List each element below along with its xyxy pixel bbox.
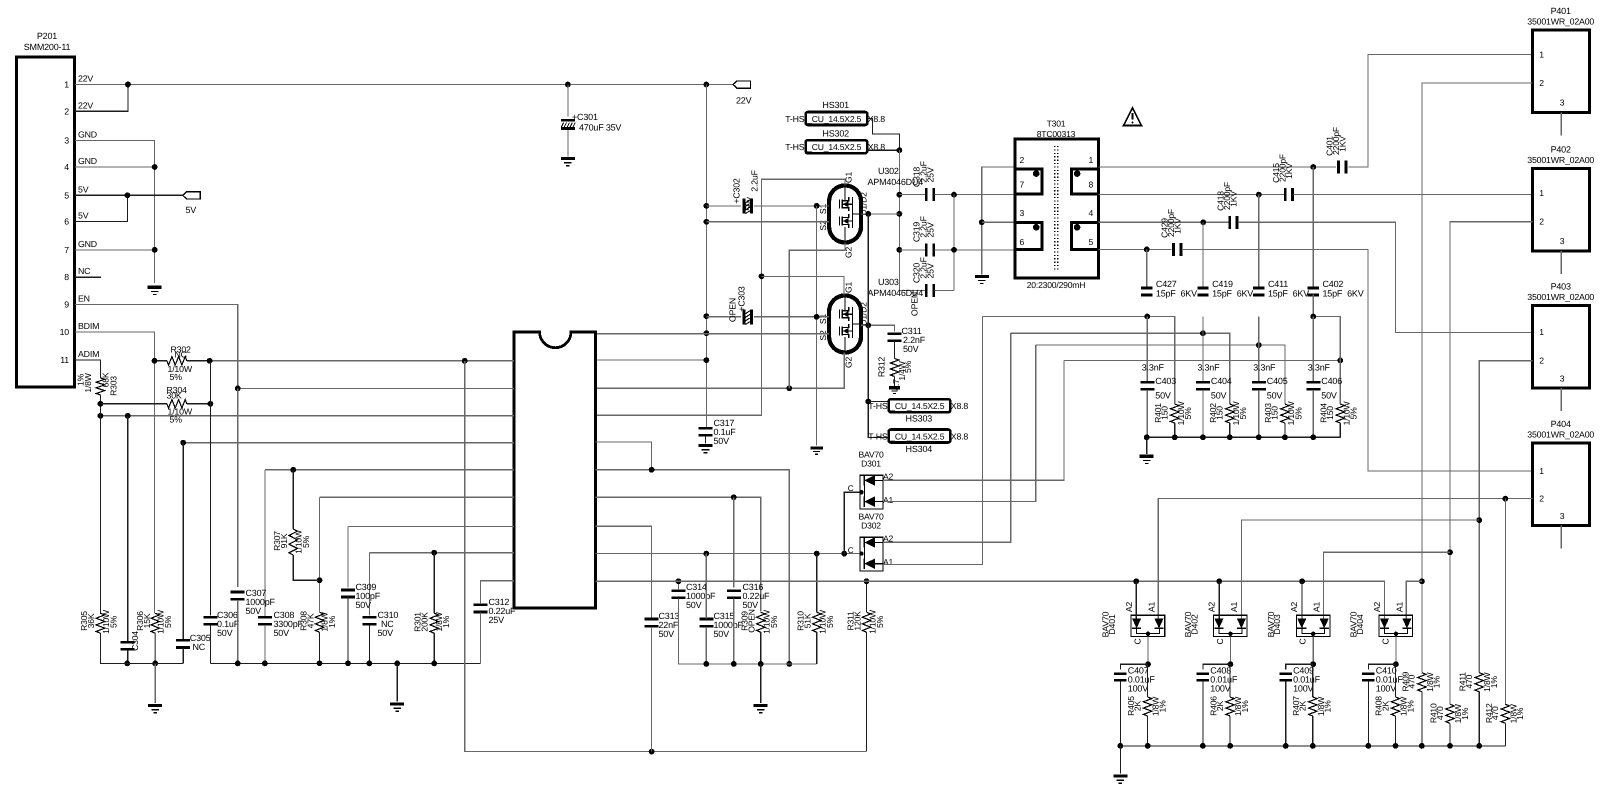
wire R405 leads <box>1147 664 1149 697</box>
winding T301 secondary 1-8 <box>1071 167 1097 195</box>
junction R304 right <box>208 401 214 407</box>
junction sec bus <box>1144 434 1150 440</box>
labels C407 <box>1128 666 1156 694</box>
junction 22V S1 row <box>704 203 710 209</box>
flag 22V <box>733 81 751 88</box>
capacitor C402 15pF 6KV <box>1308 287 1319 297</box>
wire R309 to minibus <box>760 632 762 664</box>
junction R308 bus <box>317 661 323 667</box>
junction D401 C <box>1146 632 1150 636</box>
junction output bus <box>1283 743 1289 749</box>
wire R407 leads <box>1312 664 1314 697</box>
capacitor C315 1000pF 50V <box>699 618 713 628</box>
wire P404 pin2 row <box>1158 499 1532 619</box>
ground C301 <box>561 159 575 166</box>
wire C309 drop <box>347 526 349 587</box>
diode D404 BAV70 <box>1379 615 1413 636</box>
wire C316 bottom <box>733 598 735 664</box>
wire R308 drop <box>319 497 321 611</box>
wire D404 A1 jog <box>1406 581 1422 618</box>
svg-text:D403: D403 <box>1272 614 1282 635</box>
capacitor C308 3300pF 50V <box>258 616 272 626</box>
svg-text:50V: 50V <box>1267 391 1283 401</box>
junction C411 feed <box>1256 192 1262 198</box>
junction D404 C <box>1394 632 1398 636</box>
junction rowA C403 <box>1144 314 1150 320</box>
junction GND pin7 <box>152 247 158 253</box>
svg-text:35001WR_02A00: 35001WR_02A00 <box>1527 155 1594 165</box>
svg-text:30K: 30K <box>167 390 182 400</box>
svg-text:6KV: 6KV <box>1181 289 1198 299</box>
wire C415 to P402 pin1 <box>1294 194 1533 196</box>
wire R303 bottom <box>99 395 101 614</box>
svg-text:GND: GND <box>78 239 97 249</box>
labels P404 <box>1527 419 1594 521</box>
svg-text:6KV: 6KV <box>1347 289 1364 299</box>
svg-text:C411: C411 <box>1268 279 1288 289</box>
capacitor C307 1000pF 50V <box>231 591 245 601</box>
wire R410 to bus <box>1449 723 1451 746</box>
flag 5V <box>183 192 201 199</box>
svg-text:1/8W: 1/8W <box>83 372 93 392</box>
wire U302 drain vertical <box>899 150 925 290</box>
svg-text:HS304: HS304 <box>906 444 933 454</box>
svg-text:150: 150 <box>1160 406 1170 420</box>
wire T301 pin4 row <box>1099 221 1229 223</box>
resistor R404 150 <box>1336 404 1344 423</box>
svg-text:2: 2 <box>1539 493 1544 503</box>
svg-text:150: 150 <box>1325 406 1335 420</box>
svg-text:1%: 1% <box>1240 700 1250 713</box>
svg-text:1%: 1% <box>1515 707 1525 720</box>
wire row552 to IC <box>369 552 514 554</box>
junction R307 top <box>290 467 296 473</box>
wire C306 to bus <box>209 625 211 663</box>
svg-text:35001WR_02A00: 35001WR_02A00 <box>1527 430 1594 440</box>
wire S2 row <box>706 221 829 223</box>
svg-text:1KV: 1KV <box>1284 163 1294 179</box>
junction U303 S1 tie <box>814 314 820 320</box>
wire C401 to P401 pin1 <box>1349 55 1533 168</box>
connector P402 35001WR_02A00 <box>1533 168 1590 251</box>
svg-text:+C301: +C301 <box>572 112 598 122</box>
wire ADIM pin11 <box>75 360 100 378</box>
connector P201 SMM200-11 <box>17 57 75 387</box>
wire U302 G2 jog <box>789 243 845 389</box>
junction row443 C305 <box>180 440 186 446</box>
capacitor C409 0.01uF 100V <box>1280 673 1292 682</box>
capacitor C415 2200pF 1KV <box>1284 188 1294 201</box>
junction sec bus <box>1310 434 1316 440</box>
warning triangle <box>1124 108 1142 126</box>
junction sec bus <box>1282 434 1288 440</box>
wire R302 left lead <box>155 360 167 362</box>
capacitor C319 2.2uF 25V <box>925 243 935 256</box>
wire R304 right lead <box>187 403 211 405</box>
wire output gnd bus <box>1120 745 1505 747</box>
wire secondary gnd bus <box>1147 436 1341 438</box>
labels C314 <box>686 582 716 610</box>
svg-text:GND: GND <box>78 156 97 166</box>
svg-text:50V: 50V <box>274 628 290 638</box>
capacitor C418 2200pF 1KV <box>1228 216 1238 229</box>
junction ground stem bus2 <box>394 661 400 667</box>
svg-text:C304: C304 <box>130 631 140 651</box>
svg-text:3: 3 <box>1560 511 1565 521</box>
connector P404 35001WR_02A00 <box>1533 443 1590 526</box>
wire R301 top lead <box>433 553 435 614</box>
wire HS303 lead <box>868 401 889 403</box>
junction 22V U303 S1 <box>704 313 710 319</box>
svg-text:1: 1 <box>1539 327 1544 337</box>
svg-text:22V: 22V <box>78 100 93 110</box>
wire R412 drop <box>1504 499 1506 705</box>
svg-text:5%: 5% <box>825 615 835 628</box>
svg-text:9: 9 <box>64 299 69 309</box>
wire C318 to T301 pin7 <box>934 194 1015 196</box>
svg-text:51K: 51K <box>803 613 813 628</box>
svg-text:3.3nF: 3.3nF <box>1142 362 1165 372</box>
wire D301 C lead <box>844 492 860 553</box>
junction rowD R404 <box>1337 358 1343 364</box>
svg-text:1%: 1% <box>441 615 451 628</box>
wire HS302 to node <box>867 149 899 151</box>
svg-text:_CU_14.5X2.5: _CU_14.5X2.5 <box>889 432 944 442</box>
wire row525 to IC <box>348 525 514 527</box>
svg-text:5V: 5V <box>186 205 197 215</box>
svg-text:C419: C419 <box>1212 279 1233 289</box>
junction D402 A2 <box>1216 578 1222 584</box>
capacitor C408 0.01uF 100V <box>1197 673 1209 682</box>
junction P402 sense tap <box>1447 549 1453 555</box>
labels R304 <box>167 385 193 425</box>
junction D401 A2 <box>1133 578 1139 584</box>
labels C406 <box>1308 362 1342 400</box>
wire GND pin4 <box>75 166 155 168</box>
capacitor C406 3.3nF 50V <box>1306 381 1320 391</box>
wire row470 to IC <box>265 469 514 471</box>
svg-text:5%: 5% <box>1183 407 1193 420</box>
connector P403 35001WR_02A00 <box>1533 306 1590 389</box>
svg-text:C406: C406 <box>1321 376 1342 386</box>
wire C301 top lead <box>567 85 569 117</box>
svg-text:C404: C404 <box>1211 376 1232 386</box>
svg-text:P401: P401 <box>1551 6 1571 16</box>
wire C409 to bus <box>1285 681 1287 746</box>
wire C419 top lead <box>1202 222 1204 287</box>
svg-text:D404: D404 <box>1355 614 1365 635</box>
resistor R403 150 <box>1281 404 1289 423</box>
junction D302 C <box>859 551 863 555</box>
junction output bus <box>1118 743 1124 749</box>
svg-text:P201: P201 <box>37 31 57 41</box>
svg-text:3: 3 <box>1560 98 1565 108</box>
svg-text:3: 3 <box>1560 236 1565 246</box>
svg-text:15pF: 15pF <box>1323 289 1343 299</box>
wire C312 top <box>481 581 514 604</box>
svg-text:3: 3 <box>1020 208 1025 218</box>
junction HS303 lead <box>865 399 871 405</box>
junction R307 bottom <box>317 577 323 583</box>
wire R403 to bus <box>1284 423 1286 437</box>
svg-text:5%: 5% <box>170 372 183 382</box>
svg-text:150: 150 <box>1215 406 1225 420</box>
junction sec bus <box>1227 434 1233 440</box>
junction C315 top <box>703 551 709 557</box>
wire A2 bus <box>596 581 1385 618</box>
svg-text:25V: 25V <box>926 263 936 278</box>
junction C314 A2bus <box>676 578 682 584</box>
wire R404 to bus <box>1339 423 1341 437</box>
capacitor C401 2200pF 1KV <box>1337 161 1347 174</box>
capacitor C302 2.2uF 50V <box>742 198 753 213</box>
resistor R401 150 <box>1171 404 1179 423</box>
svg-text:3: 3 <box>1560 373 1565 383</box>
svg-text:D302: D302 <box>861 521 881 531</box>
winding T301 secondary 4-5 <box>1071 221 1097 251</box>
svg-text:8TC00313: 8TC00313 <box>1037 129 1076 139</box>
svg-text:6: 6 <box>1020 237 1025 247</box>
svg-text:1%: 1% <box>1489 676 1499 689</box>
svg-text:120K: 120K <box>853 611 863 631</box>
labels C307 <box>246 588 276 616</box>
resistor R304 30K <box>167 400 187 408</box>
wire P403 pin2 sense <box>1479 361 1533 673</box>
svg-text:100V: 100V <box>1128 684 1148 694</box>
svg-text:5%: 5% <box>769 615 779 628</box>
junction output bus <box>1227 743 1233 749</box>
wire rowC D301A1 net <box>1036 345 1285 404</box>
connector P401 35001WR_02A00 <box>1533 30 1590 113</box>
svg-text:50V: 50V <box>1211 391 1227 401</box>
junction G1 branch <box>759 274 765 280</box>
junction GND pin4 <box>152 164 158 170</box>
svg-text:_CU_14.5X2.5: _CU_14.5X2.5 <box>889 401 944 411</box>
svg-text:1%: 1% <box>1405 700 1415 713</box>
wire R304 leads <box>100 403 166 405</box>
svg-text:35001WR_02A00: 35001WR_02A00 <box>1527 292 1594 302</box>
junction C316 top <box>731 494 737 500</box>
wire C308 drop <box>264 470 266 617</box>
svg-text:2: 2 <box>64 106 69 116</box>
wire C312 bottom <box>480 613 482 664</box>
wire D401 C lead <box>1147 637 1149 665</box>
junction R301 top <box>431 550 437 556</box>
wire C313 to long net <box>651 627 653 752</box>
resistor R309 OPEN <box>757 612 765 632</box>
junction R310 top <box>814 551 820 557</box>
wire sec bus ground stem <box>1146 437 1148 454</box>
wire EN row to IC <box>238 387 514 389</box>
wire D301 A2 row <box>883 360 1064 480</box>
svg-text:T301: T301 <box>1047 119 1066 129</box>
heatsink HS303 <box>889 399 951 412</box>
wire R310 top lead <box>816 554 818 613</box>
svg-text:T-HS: T-HS <box>785 114 805 124</box>
wire C404 top lead <box>1202 317 1204 382</box>
wire R302R304 vertical <box>209 361 211 404</box>
wire C315 top lead <box>705 554 707 619</box>
wire C406 top lead <box>1312 377 1314 381</box>
svg-text:P402: P402 <box>1551 144 1571 154</box>
junction D403 C node <box>1310 661 1316 667</box>
wire P402 pin2 sense <box>1450 222 1533 705</box>
labels D301 <box>858 450 884 469</box>
svg-text:50V: 50V <box>714 629 730 639</box>
wire HS vertical <box>868 214 889 438</box>
svg-text:50V: 50V <box>1155 391 1171 401</box>
wire C407 jog <box>1120 664 1148 670</box>
svg-text:D1/D2: D1/D2 <box>859 302 869 326</box>
capacitor C407 0.01uF 100V <box>1114 673 1126 682</box>
wire D301 A1 row <box>883 345 1036 501</box>
heatsink HS302 <box>806 140 868 153</box>
svg-text:1: 1 <box>1089 155 1094 165</box>
wire P401 pin2 sense <box>1422 83 1533 673</box>
wire T301 pin2 ground <box>982 167 1015 274</box>
svg-text:50V: 50V <box>714 436 730 446</box>
wire bus1 ground stem <box>154 663 156 703</box>
svg-text:SMM200-11: SMM200-11 <box>24 42 71 52</box>
svg-text:470: 470 <box>1490 706 1500 720</box>
resistor R311 120K <box>862 612 870 632</box>
junction output bus <box>1200 743 1206 749</box>
wire C314 top <box>677 581 679 590</box>
junction C315 minibus <box>703 661 709 667</box>
junction sec bus <box>1256 434 1262 440</box>
wire C405 top lead <box>1258 317 1260 382</box>
capacitor C301 470uF 35V <box>561 119 575 130</box>
svg-text:A2: A2 <box>1206 602 1216 613</box>
wire C404 to bus <box>1202 390 1204 437</box>
junction U303 drain HS <box>865 322 871 328</box>
wire gnd bus segment1 <box>100 662 183 664</box>
junction C402 feed <box>1310 164 1316 170</box>
diode D301 BAV70 <box>860 475 883 509</box>
capacitor C317 0.1uF 50V <box>699 427 713 437</box>
svg-text:50V: 50V <box>246 606 262 616</box>
labels T301 <box>1027 119 1086 291</box>
wire C408 jog <box>1203 664 1231 670</box>
ground bus middle <box>390 704 404 711</box>
svg-text:1KV: 1KV <box>1228 191 1238 207</box>
svg-text:25V: 25V <box>926 222 936 237</box>
svg-text:5%: 5% <box>1293 407 1303 420</box>
resistor R302 NC <box>167 357 187 365</box>
labels C313 <box>659 611 680 639</box>
svg-text:1KV: 1KV <box>1172 218 1182 234</box>
svg-text:1: 1 <box>1539 466 1544 476</box>
resistor R306 15K <box>151 613 159 633</box>
transistor U302 APM4046DU4 <box>829 186 861 243</box>
wire U303 G1 branch <box>762 276 844 295</box>
junction C318 left <box>897 192 903 198</box>
wire C301 ground lead <box>567 130 569 157</box>
svg-text:50V: 50V <box>217 628 233 638</box>
wire NC pin8 stub <box>75 276 101 278</box>
wire R412 to bus <box>1504 723 1506 746</box>
wire HS301 to node <box>867 119 899 151</box>
wire row497 to IC <box>320 496 515 498</box>
capacitor C411 15pF 6KV <box>1253 287 1264 297</box>
junction 22V feed <box>704 82 710 88</box>
wire D403 C lead <box>1312 637 1314 665</box>
svg-text:10: 10 <box>60 327 70 337</box>
svg-text:2.2uF: 2.2uF <box>750 169 760 191</box>
svg-text:A2: A2 <box>1289 602 1299 613</box>
svg-text:A1: A1 <box>1229 602 1239 613</box>
svg-text:5V: 5V <box>78 211 89 221</box>
wire C309 to bus <box>347 596 349 663</box>
capacitor C404 3.3nF 50V <box>1196 381 1210 391</box>
ground output bus <box>1113 776 1127 783</box>
svg-text:47K: 47K <box>306 613 316 628</box>
svg-text:2K: 2K <box>1298 700 1308 711</box>
junction C402 C406 jog <box>1310 314 1316 320</box>
wire R405 to bus <box>1147 716 1149 746</box>
labels P402 <box>1527 144 1594 246</box>
labels C306 <box>217 610 240 638</box>
wire IC vcc row <box>596 359 707 361</box>
transistor U303 APM4046DU4 <box>829 296 861 353</box>
labels C316 <box>743 582 771 610</box>
wire C304 drop <box>127 416 129 642</box>
junction pin7 node <box>951 192 957 198</box>
svg-text:1: 1 <box>1539 188 1544 198</box>
svg-text:22V: 22V <box>736 96 752 106</box>
wire GND pin7 <box>75 249 155 251</box>
svg-text:25V: 25V <box>926 167 936 182</box>
winding T301 primary 2-7 <box>1016 167 1042 195</box>
junction EN row <box>235 386 241 392</box>
wire D302 A1 row <box>883 317 983 565</box>
wire R312 ground lead <box>894 377 896 386</box>
diode D401 BAV70 <box>1131 615 1165 636</box>
pin labels D301 <box>848 472 894 506</box>
junction D401 C node <box>1145 661 1151 667</box>
svg-text:R303: R303 <box>109 376 119 396</box>
svg-text:C: C <box>848 484 854 493</box>
junction P401 sense tap <box>1419 578 1425 584</box>
ground bus left <box>148 706 162 713</box>
labels C411 <box>1268 279 1309 299</box>
svg-text:NC: NC <box>175 350 188 360</box>
wire C310 to bus <box>368 625 370 663</box>
svg-text:C403: C403 <box>1155 376 1176 386</box>
wire P402 pin3 stub <box>1560 251 1562 274</box>
svg-text:50V: 50V <box>659 629 675 639</box>
ground T301 primary <box>975 276 989 283</box>
svg-text:2K: 2K <box>1380 700 1390 711</box>
labels C312 <box>489 597 517 625</box>
svg-text:T-HS: T-HS <box>868 432 888 442</box>
svg-text:NC: NC <box>78 266 91 276</box>
wire 5V pin5 <box>75 194 183 196</box>
junction D403 A2 <box>1299 578 1305 584</box>
resistor R405 2K <box>1143 697 1151 716</box>
wire C406 to bus <box>1312 390 1314 437</box>
svg-text:HS301: HS301 <box>822 100 849 110</box>
heatsink HS301 <box>806 112 868 125</box>
svg-text:C: C <box>848 546 854 555</box>
junction C307 bus <box>235 661 241 667</box>
wire T301 pin3 <box>982 221 1015 223</box>
junction S1 tie <box>814 203 820 209</box>
wire pin6 jog <box>75 195 127 221</box>
wire T301 pin8 row <box>1099 194 1285 196</box>
svg-text:11: 11 <box>60 355 69 365</box>
svg-text:150: 150 <box>1270 406 1280 420</box>
